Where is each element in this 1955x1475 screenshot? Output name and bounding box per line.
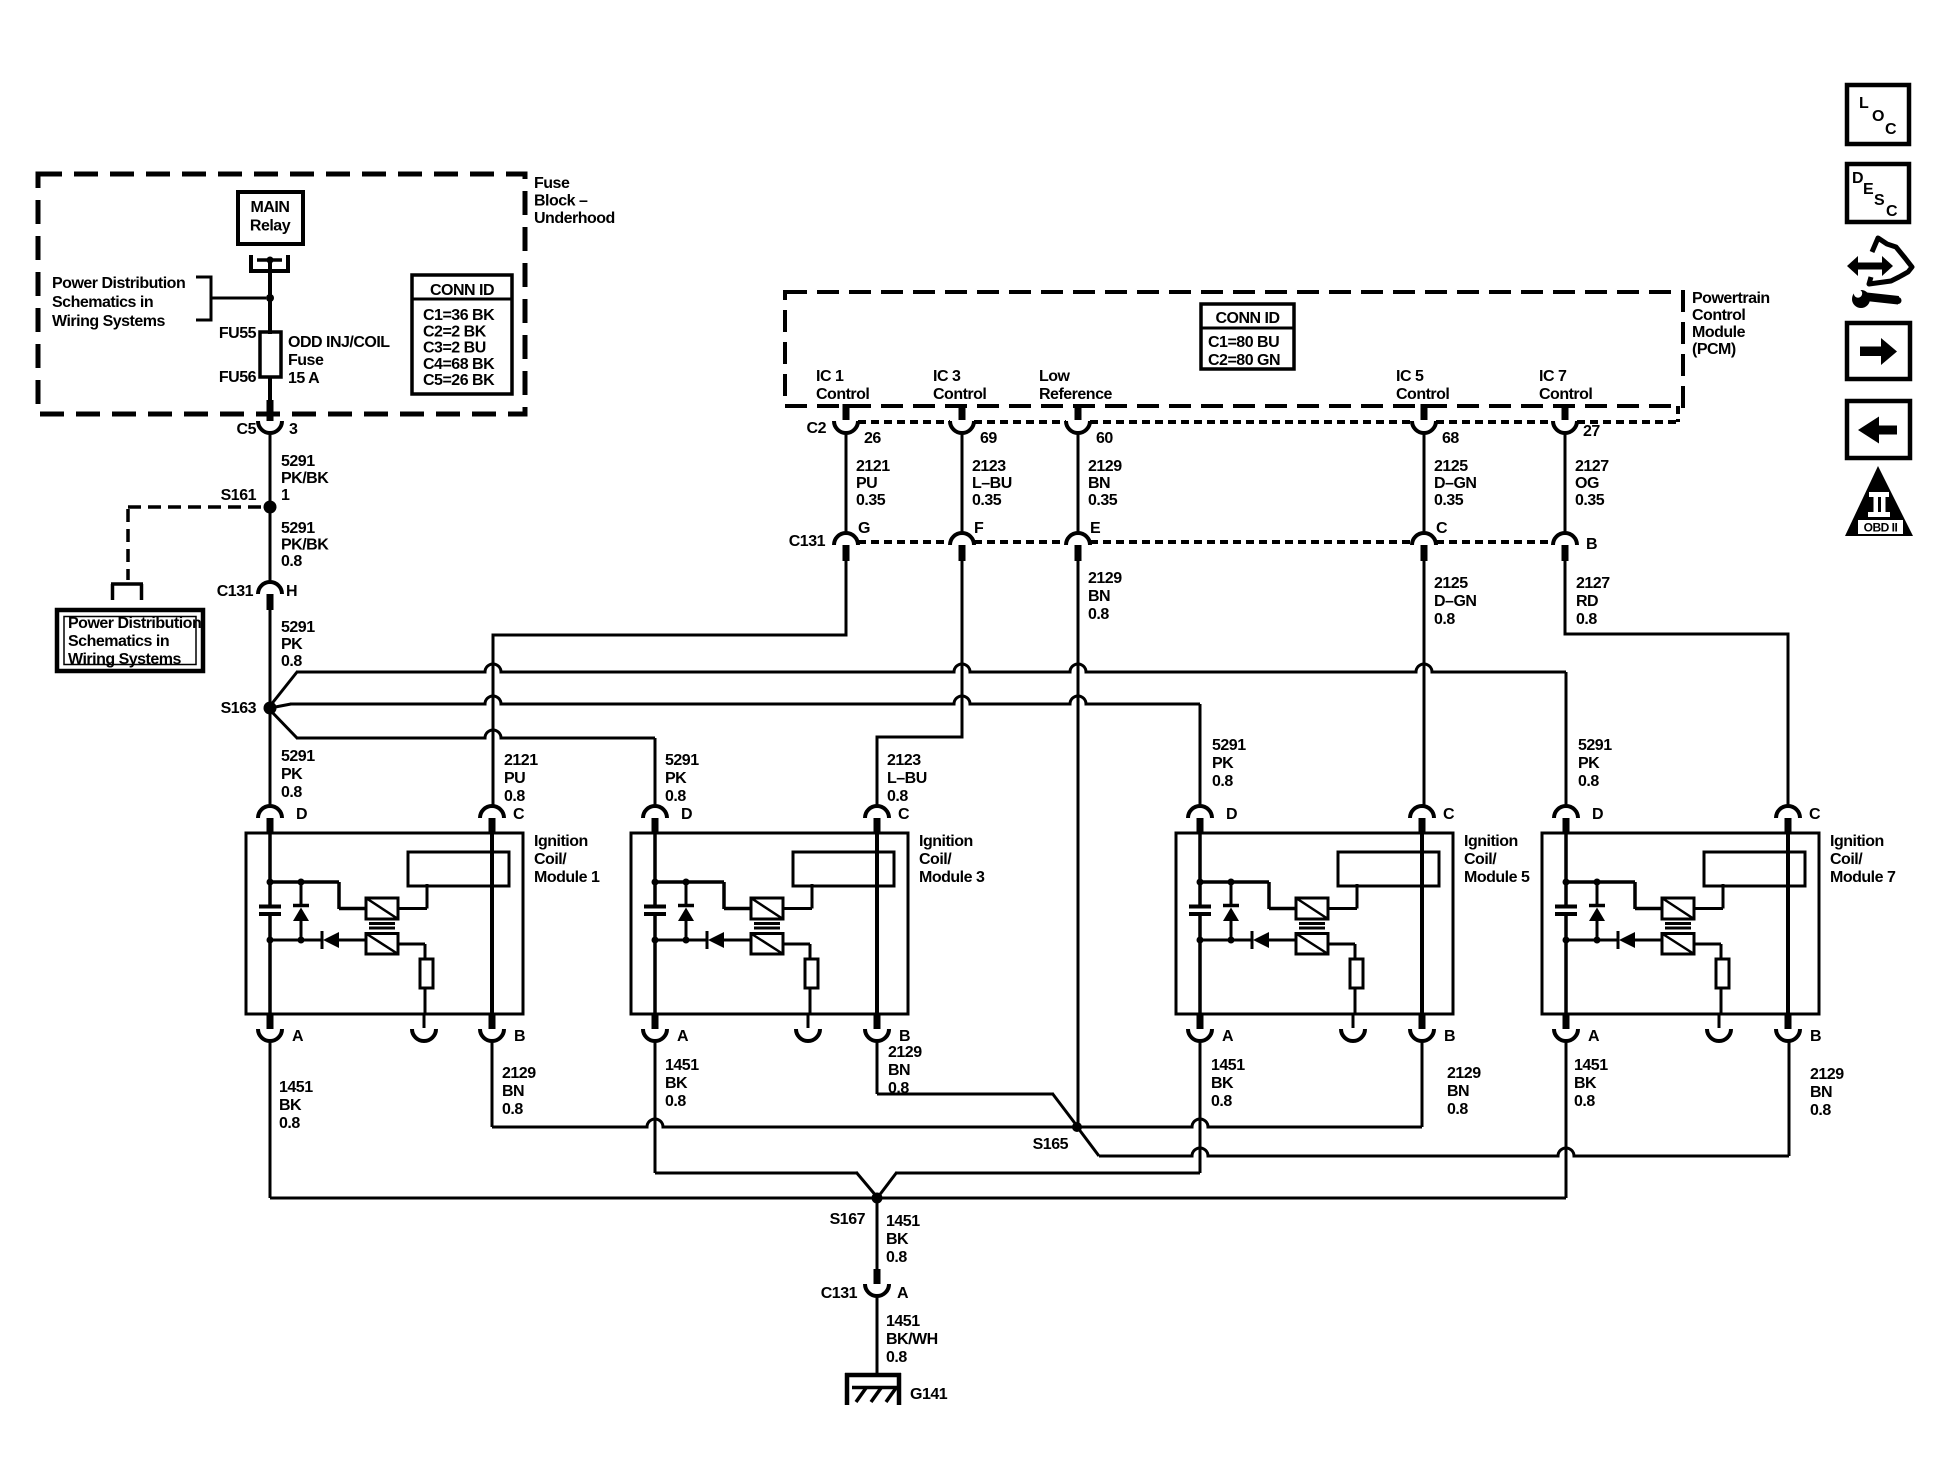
svg-text:Coil/: Coil/ [534, 851, 567, 868]
zener diode coil 1 [293, 879, 309, 944]
svg-text:2121: 2121 [504, 752, 538, 769]
svg-text:S: S [1874, 192, 1885, 209]
svg-text:C: C [513, 806, 525, 823]
label pin D coil 7 [1592, 806, 1603, 823]
label 2127 RD 0.8 [1576, 575, 1610, 628]
connector C2 pin 69 [950, 421, 974, 433]
connector pin C of coil 1 [480, 806, 504, 834]
svg-text:S165: S165 [1033, 1136, 1069, 1153]
transformer core coil 3 [754, 924, 780, 929]
wire 2129 BN 0.8 from C131-E down to S165 [1077, 561, 1080, 1123]
svg-text:Control: Control [1692, 307, 1745, 324]
label pin H [286, 583, 297, 600]
svg-text:Relay: Relay [250, 218, 291, 235]
label 2121 PU 0.8 [504, 752, 538, 805]
label S161 [221, 487, 257, 504]
label IC 1 Control [816, 368, 869, 403]
svg-text:BK: BK [279, 1097, 302, 1114]
shield connector of coil 3 [796, 1029, 820, 1041]
svg-text:C: C [1885, 121, 1897, 138]
internal ground rail coil 1 [267, 937, 323, 944]
svg-text:Power Distribution: Power Distribution [52, 275, 185, 292]
wire S167 to C131 A, circuit 1451 BK 0.8 [876, 1198, 879, 1284]
driver primary winding coil 3 [751, 898, 783, 919]
svg-text:5291: 5291 [1212, 737, 1246, 754]
label pin C coil 7 [1809, 806, 1821, 823]
wire 2129 BN 0.8 bus from coil1 B to coil5 B (through S165) [492, 1041, 1422, 1127]
svg-text:2129: 2129 [1447, 1065, 1481, 1082]
svg-text:Schematics in: Schematics in [68, 633, 169, 650]
svg-text:BK/WH: BK/WH [886, 1331, 938, 1348]
connector pin C of coil 3 [865, 806, 889, 834]
svg-text:Module: Module [1692, 324, 1746, 341]
capacitor coil 3 [644, 907, 666, 942]
connector C131 pin F [950, 533, 974, 545]
splice S161 [264, 501, 277, 514]
label pin 27 [1583, 423, 1600, 440]
label 5291 PK 0.8 (coil 7) [1578, 737, 1612, 790]
internal ground rail coil 7 [1563, 937, 1619, 944]
connector C131 pin E [1066, 533, 1090, 545]
svg-text:0.8: 0.8 [279, 1115, 300, 1132]
fuse ODD INJ/COIL 15 A [260, 332, 281, 377]
svg-text:D: D [1852, 170, 1863, 187]
svg-text:C2=80 GN: C2=80 GN [1208, 352, 1280, 369]
internal wire D to junctions coil 3 [652, 834, 752, 909]
svg-text:Schematics in: Schematics in [52, 294, 153, 311]
wire internal ground to pin A coil 5 [1198, 940, 1202, 1014]
internal ground rail coil 5 [1197, 937, 1253, 944]
high tension lead coil 1 [490, 834, 494, 1014]
wire 1451 BK 0.8 ground bus coil1 A to coil7 A through S167 [270, 1041, 1566, 1198]
connector C2 pin 26 [834, 421, 858, 433]
svg-text:2129: 2129 [1088, 570, 1122, 587]
ignition coil/module 5 box [1176, 833, 1453, 1014]
svg-text:PK: PK [665, 770, 687, 787]
svg-text:3: 3 [289, 421, 298, 438]
internal ground rail coil 3 [652, 937, 708, 944]
svg-text:1451: 1451 [886, 1313, 920, 1330]
label pin 26 [864, 430, 881, 447]
svg-text:C: C [1436, 520, 1448, 537]
svg-text:Module 3: Module 3 [919, 869, 985, 886]
wire 2125 D-GN 0.8 from C131-C to coil 5 pin C [1423, 561, 1426, 806]
wire secondary to resistor coil 1 [398, 944, 425, 959]
svg-text:BN: BN [1810, 1084, 1832, 1101]
label C2 [807, 420, 827, 437]
transformer core coil 1 [369, 924, 395, 929]
secondary winding symbol coil 7 [1662, 934, 1694, 955]
svg-text:FU56: FU56 [219, 369, 257, 386]
connector C131 pin B [1553, 533, 1577, 545]
wire IC1 C2-26 to C131-G, circuit 2121 PU 0.35 [845, 433, 848, 533]
svg-text:C1=80 BU: C1=80 BU [1208, 334, 1279, 351]
label Powertrain Control Module (PCM) [1692, 290, 1770, 358]
label S165 [1033, 1136, 1069, 1153]
splice S163 [264, 702, 277, 715]
stubs below C131 row [846, 545, 1565, 561]
label Low Reference [1039, 368, 1112, 403]
diode coil 5 [1252, 931, 1296, 949]
wire internal ground to pin A coil 3 [653, 940, 657, 1014]
svg-text:D: D [1226, 806, 1237, 823]
svg-text:Wiring Systems: Wiring Systems [52, 313, 165, 330]
svg-text:2125: 2125 [1434, 458, 1468, 475]
wire 2123 L-BU 0.8 from C131-F to coil 3 pin C [877, 561, 962, 806]
diode coil 3 [707, 931, 751, 949]
label pin D coil 5 [1226, 806, 1237, 823]
svg-text:2123: 2123 [887, 752, 921, 769]
label pin 3 [289, 421, 298, 438]
svg-text:0.8: 0.8 [1578, 773, 1599, 790]
label 5291 PK 0.8 (coil 5) [1212, 737, 1246, 790]
svg-text:0.8: 0.8 [1576, 611, 1597, 628]
svg-text:0.8: 0.8 [281, 784, 302, 801]
label pin C (C131) [1436, 520, 1448, 537]
svg-text:68: 68 [1442, 430, 1459, 447]
label pin D coil 3 [681, 806, 692, 823]
svg-text:D–GN: D–GN [1434, 475, 1476, 492]
svg-text:Underhood: Underhood [534, 210, 615, 227]
wire primary to module block coil 3 [783, 884, 812, 909]
svg-text:5291: 5291 [281, 453, 315, 470]
high tension lead coil 3 [875, 834, 879, 1014]
svg-text:Module 1: Module 1 [534, 869, 600, 886]
connector C131 pin H [258, 582, 282, 594]
label C131 (A) [821, 1285, 858, 1302]
svg-text:BN: BN [888, 1062, 910, 1079]
wire secondary to resistor coil 7 [1694, 944, 1721, 959]
svg-text:0.8: 0.8 [502, 1101, 523, 1118]
label pin A coil 1 [292, 1028, 304, 1045]
svg-text:60: 60 [1096, 430, 1113, 447]
svg-text:C1=36 BK: C1=36 BK [423, 307, 495, 324]
ignition coil/module 7 box [1542, 833, 1819, 1014]
svg-text:5291: 5291 [665, 752, 699, 769]
connector pin C of coil 7 [1776, 806, 1800, 834]
label pin D coil 1 [296, 806, 307, 823]
svg-text:C: C [898, 806, 910, 823]
label pin B coil 7 [1810, 1028, 1821, 1045]
wire Low Reference C2-60 to C131-E, circuit 2129 BN 0.35 [1077, 433, 1080, 533]
svg-text:H: H [286, 583, 297, 600]
svg-text:B: B [514, 1028, 525, 1045]
svg-text:BK: BK [886, 1231, 909, 1248]
svg-text:RD: RD [1576, 593, 1598, 610]
label pin B (C131) [1586, 536, 1597, 553]
PCM pin stubs to C2 connectors [846, 404, 1565, 420]
label pin B coil 5 [1444, 1028, 1455, 1045]
connector pin B of coil 5 [1410, 1014, 1434, 1041]
svg-text:C131: C131 [789, 533, 826, 550]
label 1451 BK 0.8 (coil 3 A) [665, 1057, 699, 1110]
label pin A coil 7 [1588, 1028, 1600, 1045]
svg-text:0.8: 0.8 [665, 1093, 686, 1110]
svg-text:1451: 1451 [665, 1057, 699, 1074]
svg-text:B: B [1444, 1028, 1455, 1045]
svg-text:Fuse: Fuse [534, 175, 570, 192]
svg-text:Wiring Systems: Wiring Systems [68, 651, 181, 668]
svg-text:0.8: 0.8 [1434, 611, 1455, 628]
connector pin A of coil 5 [1188, 1014, 1212, 1041]
label 2129 BN 0.8 (E wire) [1088, 570, 1122, 623]
svg-text:0.8: 0.8 [888, 1080, 909, 1097]
svg-text:0.8: 0.8 [665, 788, 686, 805]
svg-text:1: 1 [281, 487, 290, 504]
label Ignition Coil/ Module 7 [1830, 833, 1896, 886]
label 1451 BK 0.8 (to ground) [886, 1213, 920, 1266]
relay pin socket symbol [251, 255, 288, 271]
connector pin C of coil 5 [1410, 806, 1434, 834]
reference bracket to Power Distribution Schematics [196, 276, 266, 322]
svg-text:Coil/: Coil/ [919, 851, 952, 868]
reference fork symbol [111, 584, 143, 600]
connector C2 pin 60 [1066, 421, 1090, 433]
coil module block coil 3 [793, 852, 894, 886]
wire secondary to resistor coil 5 [1328, 944, 1355, 959]
resistor coil 1 [420, 959, 433, 988]
connector C2 pin 68 [1412, 421, 1436, 433]
svg-text:PK/BK: PK/BK [281, 470, 329, 487]
svg-text:C3=2 BU: C3=2 BU [423, 340, 486, 357]
svg-text:PU: PU [504, 770, 525, 787]
label Ignition Coil/ Module 5 [1464, 833, 1530, 886]
connector C131 pin C [1412, 533, 1436, 545]
label 2129 BN 0.35 [1088, 458, 1122, 509]
label pin A (C131) [897, 1285, 909, 1302]
connector row C131 dashed line [858, 540, 1553, 544]
svg-text:F: F [974, 520, 984, 537]
svg-text:CONN ID: CONN ID [1215, 310, 1279, 327]
svg-text:S161: S161 [221, 487, 257, 504]
ignition coil/module 3 box [631, 833, 908, 1014]
label 2129 BN 0.8 (coil 5 B) [1447, 1065, 1481, 1118]
label pin B coil 1 [514, 1028, 525, 1045]
label 2123 L-BU 0.35 [972, 458, 1012, 509]
svg-text:S167: S167 [830, 1211, 866, 1228]
wire coil3 A to S167, circuit 1451 BK 0.8 [655, 1041, 877, 1197]
svg-text:1451: 1451 [1574, 1057, 1608, 1074]
label 5291 PK/BK 1 [281, 453, 329, 504]
secondary winding symbol coil 1 [366, 934, 398, 955]
icon DESC box [1847, 164, 1909, 222]
label 2125 D-GN 0.35 [1434, 458, 1476, 509]
relay K MAIN Relay box [238, 192, 303, 244]
diode coil 7 [1618, 931, 1662, 949]
svg-text:0.8: 0.8 [1810, 1102, 1831, 1119]
connector pin A of coil 1 [258, 1014, 282, 1041]
svg-text:0.35: 0.35 [856, 492, 886, 509]
svg-text:Control: Control [1396, 386, 1449, 403]
wire 2127 RD 0.8 from C131-B to coil 7 pin C [1565, 561, 1788, 806]
driver primary winding coil 1 [366, 898, 398, 919]
label S167 [830, 1211, 866, 1228]
fuse block - underhood dashed enclosure [38, 174, 525, 414]
svg-text:D: D [681, 806, 692, 823]
zener diode coil 7 [1589, 879, 1605, 944]
wire IC3 C2-69 to C131-F, circuit 2123 L-BU 0.35 [961, 433, 964, 533]
svg-text:D: D [296, 806, 307, 823]
shield connector of coil 5 [1341, 1029, 1365, 1041]
wire S163 branch to coil 7 pin D (top line) [270, 664, 1566, 806]
wire C5 to S161, circuit 5291 PK/BK 1 [269, 433, 272, 502]
svg-text:27: 27 [1583, 423, 1600, 440]
wire resistor to shield connector coil 5 [1353, 988, 1355, 1028]
svg-text:C131: C131 [217, 583, 254, 600]
svg-text:O: O [1872, 108, 1884, 125]
svg-text:IC 3: IC 3 [933, 368, 961, 385]
label 1451 BK 0.8 (coil 7 A) [1574, 1057, 1608, 1110]
stub below C131 H [267, 594, 274, 610]
wire internal ground to pin A coil 7 [1564, 940, 1568, 1014]
svg-text:ODD INJ/COIL: ODD INJ/COIL [288, 334, 390, 351]
wire fuse to C5 connector [268, 377, 272, 421]
svg-text:0.35: 0.35 [1088, 492, 1118, 509]
svg-text:G141: G141 [910, 1386, 948, 1403]
svg-text:MAIN: MAIN [251, 199, 290, 216]
Powertrain Control Module dashed enclosure [785, 292, 1683, 406]
wire IC5 C2-68 to C131-C, circuit 2125 D-GN 0.35 [1423, 433, 1426, 533]
svg-text:IC 7: IC 7 [1539, 368, 1567, 385]
zener diode coil 5 [1223, 879, 1239, 944]
svg-text:BN: BN [1088, 588, 1110, 605]
label S163 [221, 700, 257, 717]
coil module block coil 7 [1704, 852, 1805, 886]
label G141 [910, 1386, 948, 1403]
shield connector of coil 1 [412, 1029, 436, 1041]
CONN ID table (fuse block) [412, 275, 512, 394]
connector pin D of coil 5 [1188, 806, 1212, 834]
svg-text:(PCM): (PCM) [1692, 341, 1736, 358]
svg-text:Module 5: Module 5 [1464, 869, 1530, 886]
label IC 5 Control [1396, 368, 1449, 403]
wire secondary to resistor coil 3 [783, 944, 810, 959]
wire primary to module block coil 1 [398, 884, 427, 909]
wire coil5 A to S167, circuit 1451 BK 0.8 [878, 1041, 1200, 1197]
label C131 (H) [217, 583, 254, 600]
svg-text:2129: 2129 [502, 1065, 536, 1082]
label 2121 PU 0.35 [856, 458, 890, 509]
svg-text:L–BU: L–BU [887, 770, 927, 787]
shield connector of coil 7 [1707, 1029, 1731, 1041]
wire primary to module block coil 7 [1694, 884, 1723, 909]
label Ignition Coil/ Module 3 [919, 833, 985, 886]
svg-text:C2=2 BK: C2=2 BK [423, 323, 487, 340]
label pin A coil 3 [677, 1028, 689, 1045]
Power Distribution Schematics in Wiring Systems box [57, 610, 203, 671]
icon back arrow box [1847, 401, 1910, 458]
secondary winding symbol coil 5 [1296, 934, 1328, 955]
label MAIN Relay [250, 199, 291, 235]
label Ignition Coil/ Module 1 [534, 833, 600, 886]
svg-text:2129: 2129 [1088, 458, 1122, 475]
resistor coil 5 [1350, 959, 1363, 988]
driver primary winding coil 7 [1662, 898, 1694, 919]
svg-text:0.35: 0.35 [1575, 492, 1605, 509]
svg-text:OBD II: OBD II [1864, 521, 1898, 535]
label 2129 BN 0.8 (coil 7 B) [1810, 1066, 1844, 1119]
wire S165 to coil7 B, circuit 2129 BN 0.8 [1078, 1041, 1789, 1156]
label pin C coil 1 [513, 806, 525, 823]
dashed reference wire from S161 [128, 507, 266, 580]
label ODD INJ/COIL Fuse 15 A [288, 334, 390, 387]
svg-text:B: B [899, 1028, 910, 1045]
label C131 (PCM row) [789, 533, 826, 550]
label 1451 BK 0.8 (coil 5 A) [1211, 1057, 1245, 1110]
svg-text:BK: BK [665, 1075, 688, 1092]
resistor coil 3 [805, 959, 818, 988]
svg-text:5291: 5291 [281, 619, 315, 636]
capacitor coil 1 [259, 907, 281, 942]
label pin A coil 5 [1222, 1028, 1234, 1045]
coil module block coil 5 [1338, 852, 1439, 886]
svg-text:D–GN: D–GN [1434, 593, 1476, 610]
svg-text:CONN ID: CONN ID [430, 282, 494, 299]
icon LOC box [1847, 85, 1909, 144]
svg-text:C131: C131 [821, 1285, 858, 1302]
svg-text:Control: Control [816, 386, 869, 403]
zener diode coil 3 [678, 879, 694, 944]
wire S163 branch to coil 3 pin D (bottom line) [270, 710, 655, 806]
label IC 7 Control [1539, 368, 1592, 403]
svg-text:A: A [897, 1285, 909, 1302]
label 2127 OG 0.35 [1575, 458, 1609, 509]
svg-text:Ignition: Ignition [1464, 833, 1518, 850]
label 5291 PK/BK 0.8 [281, 520, 329, 570]
svg-text:Ignition: Ignition [1830, 833, 1884, 850]
transformer core coil 7 [1665, 924, 1691, 929]
connector pin D of coil 1 [258, 806, 282, 834]
label 5291 PK 0.8 (above S163) [281, 619, 315, 670]
svg-text:BN: BN [1447, 1083, 1469, 1100]
splice S167 [872, 1193, 883, 1204]
wire resistor to shield connector coil 7 [1719, 988, 1721, 1028]
svg-text:BN: BN [1088, 475, 1110, 492]
svg-text:Control: Control [1539, 386, 1592, 403]
svg-text:C2: C2 [807, 420, 827, 437]
connector row C2 dashed line [858, 406, 1678, 422]
connector pin B of coil 7 [1776, 1014, 1800, 1041]
label pin 60 [1096, 430, 1113, 447]
connector C2 pin 27 [1553, 421, 1577, 433]
wire resistor to shield connector coil 1 [424, 988, 425, 1028]
ground G141 [845, 1373, 901, 1405]
icon vehicle data link with wrench [1847, 238, 1912, 308]
wire junction to fuse FU55 [268, 298, 272, 334]
svg-text:Ignition: Ignition [919, 833, 973, 850]
coil module block coil 1 [408, 852, 509, 886]
splice S165 [1072, 1122, 1082, 1132]
wire coil3 B to S165, circuit 2129 BN 0.8 [877, 1041, 1077, 1126]
label pin 68 [1442, 430, 1459, 447]
wire IC7 C2-27 to C131-B, circuit 2127 OG 0.35 [1564, 433, 1567, 533]
high tension lead coil 5 [1420, 834, 1424, 1014]
label pin B coil 3 [899, 1028, 910, 1045]
connector pin B of coil 3 [865, 1014, 889, 1041]
svg-text:0.8: 0.8 [1574, 1093, 1595, 1110]
svg-text:PU: PU [856, 475, 877, 492]
capacitor coil 7 [1555, 907, 1577, 942]
svg-text:0.35: 0.35 [972, 492, 1002, 509]
svg-text:C5=26 BK: C5=26 BK [423, 372, 495, 389]
wire internal ground to pin A coil 1 [268, 940, 272, 1014]
driver primary winding coil 5 [1296, 898, 1328, 919]
svg-text:E: E [1090, 520, 1101, 537]
svg-text:2127: 2127 [1576, 575, 1610, 592]
svg-text:0.8: 0.8 [886, 1249, 907, 1266]
svg-text:L: L [1859, 95, 1869, 112]
wire primary to module block coil 5 [1328, 884, 1357, 909]
